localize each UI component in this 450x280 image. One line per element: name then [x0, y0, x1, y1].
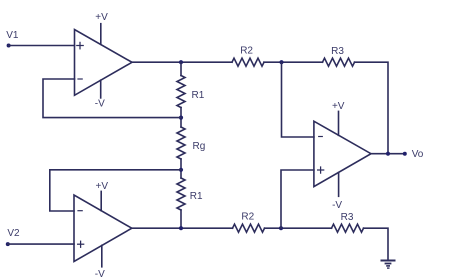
junction (R2/R3 bottom)	[279, 226, 283, 230]
svg-text:Vo: Vo	[412, 149, 424, 160]
wire	[264, 61, 323, 63]
wire (top riser to U3 inverting input)	[282, 62, 314, 137]
node V2	[6, 228, 20, 246]
wire (U1 output rail)	[132, 61, 232, 63]
node V1	[6, 30, 19, 48]
wire (R1 top lead)	[180, 62, 182, 75]
op-amp U1	[75, 30, 133, 96]
svg-text:-V: -V	[95, 269, 105, 280]
supply -V (U2)	[95, 245, 105, 280]
svg-text:-V: -V	[95, 98, 105, 109]
wire	[180, 159, 182, 178]
junction (U2 out / R1)	[179, 226, 183, 230]
svg-text:+V: +V	[96, 181, 109, 192]
svg-text:+V: +V	[95, 12, 108, 23]
ground	[382, 261, 395, 269]
wire	[8, 243, 74, 245]
svg-text:-V: -V	[332, 200, 342, 211]
wire (U2 output rail)	[132, 227, 233, 229]
wire (to ground)	[364, 228, 389, 260]
wire	[9, 45, 75, 47]
junction (R2/R3 top)	[279, 60, 283, 64]
wire	[265, 227, 332, 229]
wire (R1 bottom lead)	[180, 210, 182, 228]
supply +V (U1)	[95, 12, 108, 44]
resistor R3 (top)	[323, 46, 355, 66]
svg-text:R2: R2	[240, 45, 253, 56]
junction (U1 out / R1)	[179, 60, 183, 64]
resistor R1 (lower)	[177, 178, 203, 210]
svg-text:+V: +V	[332, 101, 345, 112]
svg-text:R1: R1	[192, 90, 205, 101]
resistor R3 (bottom)	[332, 212, 364, 232]
op-amp U2	[74, 195, 132, 262]
wire (U3 output)	[371, 153, 405, 155]
supply -V (U1)	[95, 80, 105, 109]
svg-text:R3: R3	[341, 212, 354, 223]
svg-text:Rg: Rg	[193, 141, 206, 152]
junction (R1/Rg)	[179, 116, 183, 120]
svg-text:V1: V1	[6, 30, 19, 41]
resistor R1 (upper)	[177, 76, 205, 108]
wire (bottom riser to U3 non-inverting input)	[281, 170, 314, 228]
svg-text:R2: R2	[241, 212, 254, 223]
supply +V (U3)	[332, 101, 345, 136]
wire (U2 feedback)	[50, 170, 181, 211]
resistor R2 (top)	[232, 45, 264, 66]
wire (feedback to U3 output)	[355, 62, 389, 154]
supply -V (U3)	[332, 173, 342, 212]
svg-text:R1: R1	[190, 191, 203, 202]
resistor Rg	[177, 127, 205, 159]
wire (U1 feedback)	[43, 79, 181, 118]
resistor R2 (bottom)	[233, 212, 265, 233]
wire	[180, 108, 182, 128]
junction (feedback / output)	[386, 152, 390, 156]
supply +V (U2)	[96, 181, 109, 211]
junction (Rg/R1)	[179, 168, 183, 172]
svg-text:V2: V2	[7, 228, 20, 239]
svg-text:R3: R3	[331, 46, 344, 57]
op-amp U3	[314, 121, 371, 186]
node Vo	[403, 149, 424, 160]
